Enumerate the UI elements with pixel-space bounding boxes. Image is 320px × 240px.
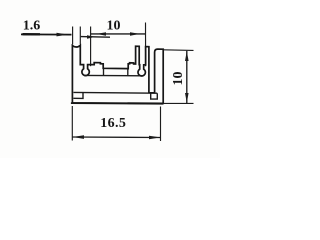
svg-text:16.5: 16.5 — [100, 116, 126, 131]
extension line bottom (10 right) — [163, 102, 193, 104]
left arrowhead 10 top — [97, 32, 107, 36]
svg-text:10: 10 — [171, 72, 186, 86]
top arrowhead 10 right — [185, 51, 189, 61]
leader line left of 1.6 dimension — [21, 33, 72, 35]
svg-text:1.6: 1.6 — [23, 19, 41, 34]
extension line right (16.5) — [160, 107, 162, 142]
extension line left (10 top) — [90, 27, 92, 67]
leader line right of 1.6 dimension — [81, 36, 110, 39]
dimension line 10 top — [91, 33, 146, 35]
notch slab underside — [103, 69, 105, 76]
arrowhead on 1.6 right leader — [87, 35, 95, 39]
extension line wall outer face (1.6 dim) — [72, 27, 74, 45]
dimension line 16.5 — [72, 136, 160, 139]
bottom arrowhead 10 right — [185, 93, 189, 103]
profile outline — [72, 45, 163, 103]
arrowhead on 1.6 left leader — [57, 33, 69, 37]
right lug notch — [151, 93, 158, 99]
bottom edge emphasis — [71, 102, 163, 105]
extension line right (10 top) — [145, 23, 147, 67]
svg-text:10: 10 — [107, 19, 121, 34]
underline of 1.6 text — [23, 33, 41, 35]
extension line wall inner face (1.6 dim) — [79, 27, 81, 45]
extension line left (16.5) — [71, 106, 73, 141]
left arrowhead 16.5 — [73, 135, 85, 139]
right arrowhead 10 top — [130, 32, 140, 36]
tangent line under notch connecting channels — [84, 74, 144, 76]
left lug notch — [73, 93, 83, 99]
vertical dimension line 10 right — [186, 51, 188, 103]
right arrowhead 16.5 — [149, 136, 160, 140]
extension line top (10 right) — [163, 49, 193, 52]
inner web line (slab underside) — [74, 91, 158, 94]
